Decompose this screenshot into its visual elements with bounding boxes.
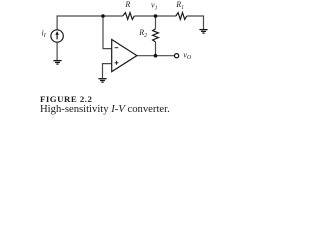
resistor R2 xyxy=(153,29,159,42)
node A (junction dot) xyxy=(101,14,105,18)
caption: FIGURE 2.2 xyxy=(40,94,92,104)
wire: v1 down to R2 top lead xyxy=(155,16,157,29)
svg-text:iI: iI xyxy=(42,28,47,39)
svg-text:v1: v1 xyxy=(151,1,158,12)
op-amp plus sign xyxy=(115,61,119,65)
node at op-amp output (junction dot) xyxy=(154,54,158,58)
svg-text:vO: vO xyxy=(183,50,192,61)
svg-text:R1: R1 xyxy=(175,0,184,11)
terminal vO (open circle) xyxy=(175,54,179,58)
wire: junction A down to op-amp inverting input xyxy=(103,16,112,49)
resistor R1 xyxy=(176,13,187,20)
wire: R2 bottom lead to output node xyxy=(155,42,157,56)
wire: op-amp noninverting input to ground drop xyxy=(103,64,112,79)
wire: current source top to junction A xyxy=(57,16,123,30)
wire: R1 right lead to right ground drop xyxy=(187,16,204,29)
node v1 (junction dot) xyxy=(154,14,158,18)
current source iI xyxy=(51,30,63,42)
ground (right, below R1) xyxy=(199,30,207,33)
op-amp minus sign xyxy=(115,47,119,49)
op-amp U1 xyxy=(112,40,137,72)
svg-text:R2: R2 xyxy=(138,28,147,39)
ground (below current source) xyxy=(53,61,61,65)
caption: High-sensitivity I-V converter. xyxy=(40,104,170,115)
wire: current source bottom to ground xyxy=(56,42,58,60)
wire: resistor R right lead to v1 to R1 left lead xyxy=(134,15,176,17)
svg-text:R: R xyxy=(124,0,130,9)
wire: op-amp output to terminal vO xyxy=(137,55,175,57)
ground (below op-amp + input) xyxy=(98,79,106,83)
resistor R xyxy=(123,13,135,20)
